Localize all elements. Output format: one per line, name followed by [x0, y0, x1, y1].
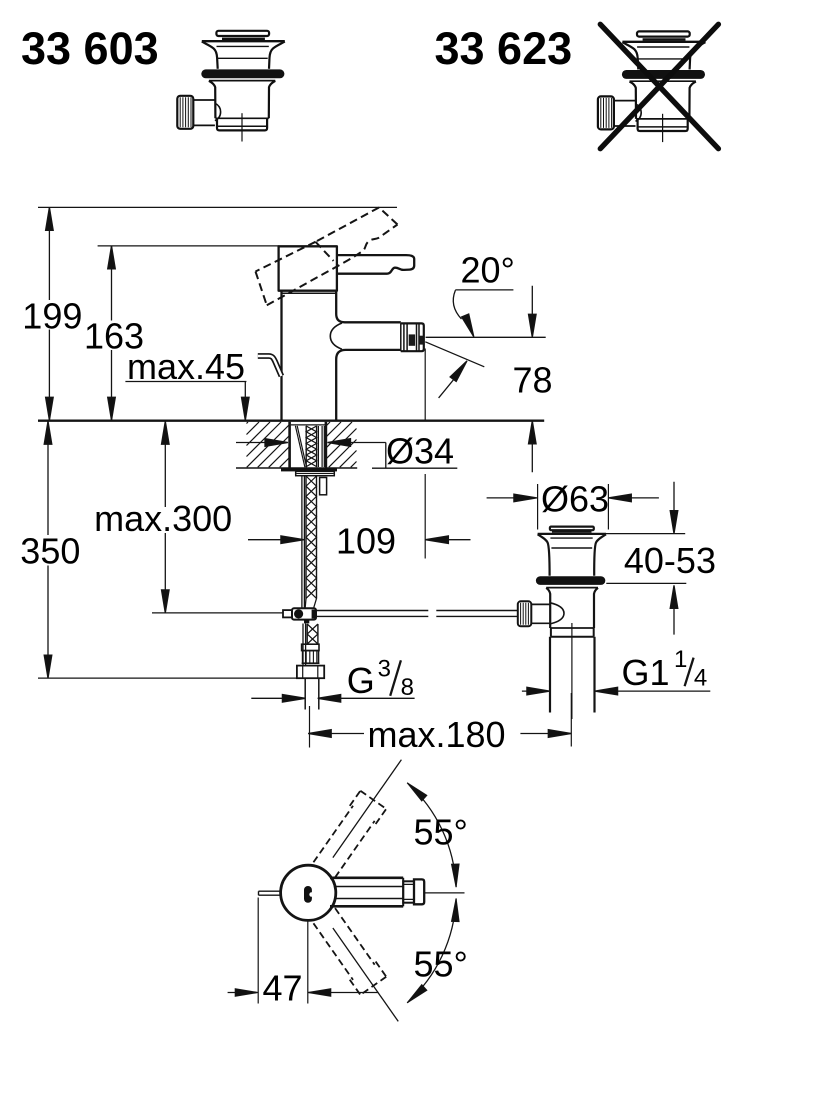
- dim max.300: [164, 421, 166, 613]
- dim max.180: [308, 733, 571, 735]
- svg-text:3: 3: [378, 655, 391, 682]
- deck top line: [38, 420, 544, 422]
- reference line top (199): [38, 206, 397, 208]
- lower 20deg arc arrow: [439, 379, 455, 398]
- dashed lever (alternate position): [256, 208, 398, 306]
- 20deg label underline: [455, 289, 513, 291]
- spout bottom edge + column lower right edge: [336, 350, 401, 420]
- shank base line: [291, 424, 325, 426]
- plan spout shoulder: [403, 881, 414, 902]
- connection tails: [305, 678, 319, 709]
- plan pop-up rod stub: [259, 891, 282, 895]
- dim max.45: [125, 382, 246, 403]
- dim G3/8: [251, 697, 414, 699]
- dim G1 1/4: [522, 690, 710, 692]
- ribbed sleeve: [303, 651, 319, 664]
- dim Ø34: [236, 443, 457, 469]
- side stub connector: [320, 478, 327, 495]
- svg-text:Ø63: Ø63: [541, 479, 609, 520]
- aerator leader diagonal 20deg: [425, 342, 484, 367]
- dim 40-53: [603, 534, 687, 584]
- svg-text:350: 350: [20, 531, 80, 572]
- svg-text:78: 78: [513, 359, 553, 400]
- waste cap: [550, 527, 594, 531]
- pop-up rod in shank (diagonal): [295, 426, 306, 467]
- svg-text:max.180: max.180: [368, 714, 506, 755]
- svg-text:G1: G1: [622, 652, 670, 693]
- counter hatch left: [247, 422, 290, 467]
- dim 109: [248, 539, 471, 541]
- svg-text:33 623: 33 623: [435, 23, 573, 74]
- svg-text:max.300: max.300: [94, 498, 232, 539]
- aerator ring lines: [401, 323, 419, 351]
- step: [302, 662, 320, 664]
- svg-text:40-53: 40-53: [624, 540, 716, 581]
- aerator outline: [401, 323, 424, 351]
- dim Ø63: [487, 497, 659, 499]
- lower hose section: [303, 624, 306, 666]
- svg-text:55°: 55°: [414, 812, 468, 853]
- drain valve 33603: [177, 31, 284, 142]
- svg-text:Ø34: Ø34: [386, 431, 454, 472]
- dashed swivel arm lower: [311, 907, 386, 995]
- pop-up vertical rod: [302, 476, 305, 608]
- body bulge arc at spout junction: [330, 323, 342, 349]
- plan spout outer lines: [330, 878, 403, 907]
- hose crosshatch: [306, 476, 317, 598]
- aerator leader horizontal: [426, 336, 546, 338]
- svg-text:199: 199: [22, 295, 82, 336]
- waste body: [546, 587, 598, 589]
- 20deg arc arrow: [453, 290, 461, 319]
- drain valve 33623 (crossed out): [598, 31, 706, 142]
- aerator extension line: [424, 349, 426, 559]
- dim 78: [531, 286, 533, 473]
- svg-text:max.45: max.45: [127, 346, 245, 387]
- hose end collar: [302, 644, 319, 650]
- shank walls: [290, 422, 326, 468]
- block bottom inner line: [282, 292, 337, 294]
- dim 350: [47, 421, 49, 678]
- hose in shank crosshatch: [306, 426, 316, 467]
- svg-text:33 603: 33 603: [21, 23, 159, 74]
- reference line 163: [98, 245, 279, 247]
- waste bottom rim: [550, 627, 594, 629]
- counter bottom line: [236, 467, 357, 469]
- faucet handle block: [279, 246, 337, 290]
- faucet lever solid: [337, 255, 414, 274]
- hose taper to coupling: [305, 599, 316, 608]
- faucet body column left edge: [280, 291, 282, 421]
- extension line rod level: [152, 612, 283, 614]
- 55deg arc lower: [407, 899, 456, 1003]
- hex nut G3/8: [297, 666, 324, 679]
- cross-out X over 33623 drain: [600, 24, 718, 148]
- locknut under deck: [281, 468, 337, 471]
- 55deg reference line upper: [333, 760, 402, 858]
- 55deg reference line lower: [333, 928, 398, 1021]
- svg-text:G: G: [347, 660, 375, 701]
- dim 199: [48, 207, 50, 420]
- shank channel lines: [318, 426, 324, 467]
- waste flange: [538, 533, 606, 535]
- dimension texts: [20, 250, 716, 755]
- dashed swivel arm upper: [311, 791, 386, 879]
- svg-text:109: 109: [336, 520, 396, 561]
- plan aerator end: [414, 879, 424, 904]
- svg-text:1: 1: [674, 646, 687, 673]
- svg-text:55°: 55°: [414, 944, 468, 985]
- waste knob: [518, 601, 532, 626]
- deck / counter: [38, 421, 544, 495]
- svg-text:47: 47: [263, 968, 303, 1009]
- 55deg arc upper: [407, 783, 456, 887]
- waste seal ring: [536, 576, 605, 585]
- faucet body column right edge + spout top: [336, 291, 401, 323]
- plan lever slot: [304, 886, 312, 903]
- svg-text:20°: 20°: [461, 250, 515, 291]
- svg-text:4: 4: [694, 665, 707, 692]
- pop-up rod knob: [258, 356, 282, 376]
- dim 163: [111, 246, 113, 420]
- svg-text:8: 8: [401, 674, 414, 701]
- pop-up waste set: [518, 527, 606, 719]
- plan center line: [424, 892, 464, 894]
- flexible hose below deck: [283, 476, 518, 710]
- extension line hose end level: [38, 677, 297, 679]
- horizontal pop-up rod: [316, 611, 518, 617]
- plan faucet body circle: [281, 865, 336, 920]
- plan spout inner lines: [334, 887, 403, 899]
- counter hatch right: [327, 422, 357, 467]
- hose walls: [306, 476, 317, 599]
- pop-up rod coupling: [292, 608, 316, 619]
- waste tailpipe: [550, 637, 595, 713]
- dim 47: [228, 992, 379, 994]
- aerator screen marks: [409, 334, 415, 345]
